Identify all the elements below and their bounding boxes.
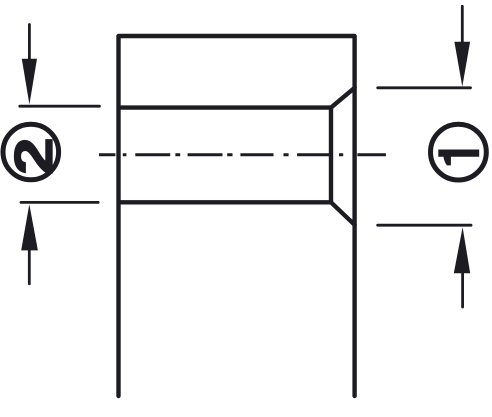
centerline (dash-dot): [99, 153, 386, 156]
dimension arrow bottom-left (points up): [21, 204, 38, 284]
callout circle 2: [3, 124, 59, 180]
extension line left bottom: [21, 201, 98, 204]
callout circle 1: [431, 124, 487, 180]
bore bottom line: [119, 200, 332, 204]
dimension arrow bottom-right (points up): [454, 227, 470, 307]
label 1 (rotated, drawn): [438, 150, 479, 166]
extension line right top: [378, 86, 471, 89]
countersink top diagonal: [331, 88, 355, 108]
dimension arrow top-left (points down): [22, 25, 37, 105]
extension line right bottom: [378, 224, 471, 227]
svg-text:2: 2: [3, 137, 64, 175]
body outline (open bottom): [119, 36, 355, 396]
extension line left top: [20, 105, 100, 108]
countersink root edge: [329, 108, 333, 203]
dimension arrow top-right (points down): [454, 6, 470, 86]
bore top line: [119, 105, 332, 109]
countersink bottom diagonal: [331, 202, 355, 225]
